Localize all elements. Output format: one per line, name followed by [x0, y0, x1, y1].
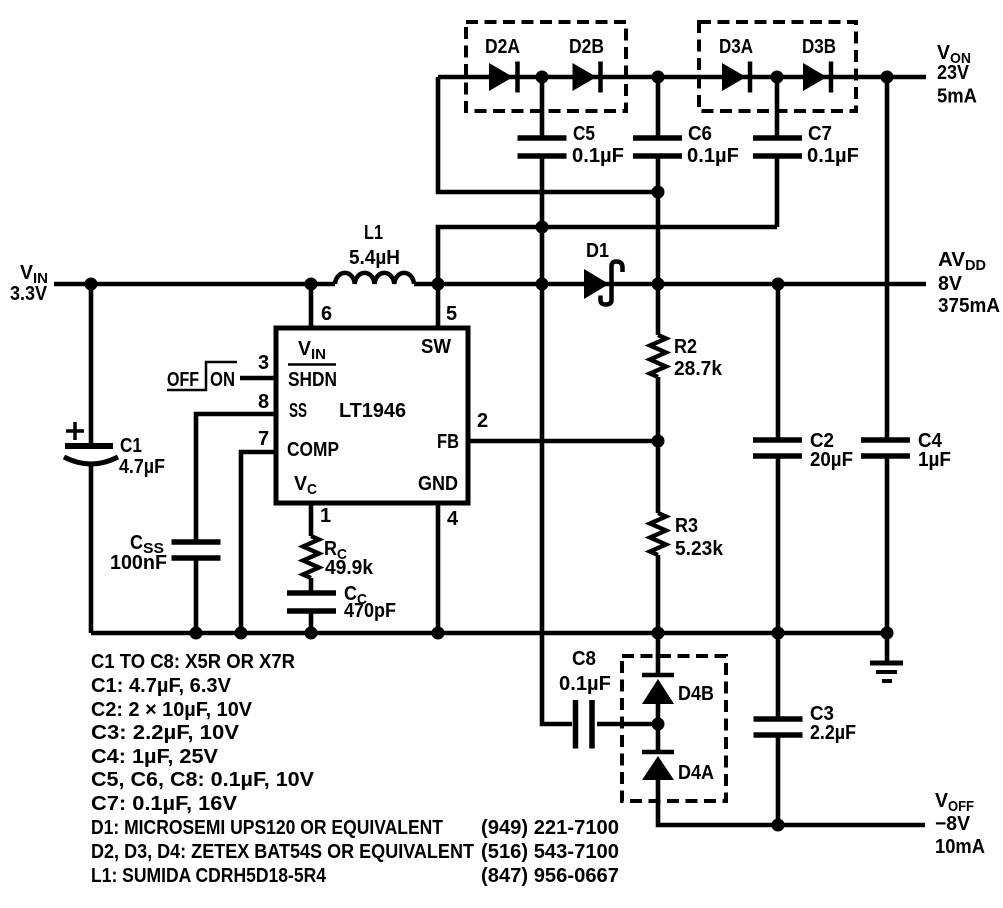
pin label VIN inside IC: [298, 338, 326, 363]
capacitor CC bottom stub: [309, 613, 314, 633]
wire SW node to flying caps C5/C7 (y=227): [438, 227, 777, 284]
resistor R2 bottom stub: [656, 377, 661, 441]
resistor R2 zigzag: [650, 335, 666, 377]
svg-text:8: 8: [258, 391, 269, 413]
node D3B cathode/VON: [881, 71, 894, 84]
svg-text:D4A: D4A: [678, 762, 714, 784]
net label VOFF: [935, 790, 974, 815]
capacitor C5: [518, 138, 567, 156]
node C5 bottom/SW wire: [536, 221, 549, 234]
svg-text:C5, C6, C8: 0.1µF, 10V: C5, C6, C8: 0.1µF, 10V: [91, 769, 315, 791]
wire VIN branch to C1 top: [89, 284, 94, 444]
label RC: [324, 538, 347, 563]
node ground-symbol: [881, 627, 894, 640]
capacitor CSS: [172, 542, 221, 558]
svg-text:C2: 2 × 10µF, 10V: C2: 2 × 10µF, 10V: [91, 699, 253, 721]
wire SS pin stub and CSS riser: [196, 414, 276, 540]
svg-text:V: V: [298, 338, 312, 360]
svg-text:IN: IN: [311, 346, 326, 363]
svg-text:6: 6: [321, 303, 332, 325]
svg-text:D1: MICROSEMI UPS120 OR EQUIVA: D1: MICROSEMI UPS120 OR EQUIVALENT: [91, 817, 443, 839]
plus sign for C1: [66, 422, 84, 440]
node pin6/L1 left: [305, 278, 318, 291]
wire bottom ground rail: [91, 631, 887, 636]
svg-text:C4: 1µF, 25V: C4: 1µF, 25V: [91, 746, 219, 768]
svg-text:V: V: [937, 42, 951, 64]
capacitor C5 bottom stub: [540, 158, 545, 227]
svg-text:FB: FB: [437, 431, 459, 453]
svg-text:C5: C5: [573, 123, 595, 145]
diode D2A: [489, 62, 518, 93]
svg-text:D2, D3, D4: ZETEX BAT54S OR EQ: D2, D3, D4: ZETEX BAT54S OR EQUIVALENT: [91, 841, 474, 863]
wire D4B anode to node: [656, 702, 661, 724]
svg-text:4: 4: [447, 508, 459, 530]
capacitor C6: [633, 138, 682, 156]
wire riser from D2A anode down to C6-node wire: [438, 77, 658, 192]
wire SHDN pin stub: [240, 376, 276, 381]
resistor RC zigzag: [303, 536, 319, 578]
diode D3A: [722, 62, 750, 93]
ground: [870, 661, 903, 666]
svg-text:C1 TO C8: X5R OR X7R: C1 TO C8: X5R OR X7R: [91, 651, 296, 673]
svg-text:L1: L1: [364, 222, 383, 244]
svg-text:C1: C1: [120, 435, 142, 457]
svg-text:2.2µF: 2.2µF: [810, 722, 856, 744]
node SW/L1 right: [432, 278, 445, 291]
svg-text:V: V: [935, 790, 949, 812]
node D2B-D3A/C6 top: [652, 71, 665, 84]
svg-text:(949) 221-7100: (949) 221-7100: [481, 817, 619, 839]
op-amp U1 LT1946 box: [276, 328, 468, 503]
capacitor C7: [753, 138, 802, 156]
capacitor C2: [753, 440, 802, 456]
net label VIN: [20, 262, 48, 287]
OFF/ON step lines: [167, 362, 237, 390]
svg-text:SW: SW: [421, 336, 451, 358]
svg-text:5.4µH: 5.4µH: [349, 247, 400, 269]
svg-text:100nF: 100nF: [110, 552, 167, 574]
svg-text:5mA: 5mA: [937, 86, 977, 108]
svg-text:20µF: 20µF: [810, 449, 853, 471]
svg-text:SHDN: SHDN: [288, 369, 337, 391]
wire main AVDD rail right of L1: [414, 282, 926, 287]
svg-text:10mA: 10mA: [935, 836, 985, 858]
svg-text:L1: SUMIDA CDRH5D18-5R4: L1: SUMIDA CDRH5D18-5R4: [91, 865, 327, 887]
wire C4 bottom to ground rail: [885, 458, 890, 633]
node C2-C3/ground: [772, 627, 785, 640]
diode package D3 dashed box: [699, 22, 856, 111]
svg-text:49.9k: 49.9k: [325, 557, 374, 579]
svg-text:D3A: D3A: [719, 36, 753, 58]
svg-text:R2: R2: [674, 336, 697, 358]
node CC/ground: [305, 627, 318, 640]
svg-text:375mA: 375mA: [938, 295, 1000, 317]
svg-text:5.23k: 5.23k: [675, 538, 724, 560]
pin label VC inside IC: [294, 473, 317, 498]
capacitor C7 top stub: [775, 77, 780, 136]
node CSS/ground: [190, 627, 203, 640]
svg-text:R3: R3: [675, 515, 698, 537]
wire pin6 riser: [309, 284, 314, 330]
svg-text:28.7k: 28.7k: [674, 358, 723, 380]
net label VON: [937, 42, 971, 67]
svg-text:7: 7: [258, 428, 269, 450]
label CSS: [130, 532, 164, 557]
node D1 anode: [536, 278, 549, 291]
capacitor CC: [287, 593, 336, 611]
wire pin5 SW riser: [436, 284, 441, 330]
wire top charge-pump rail: [438, 75, 926, 80]
svg-text:(516) 543-7100: (516) 543-7100: [481, 841, 619, 863]
svg-text:5: 5: [446, 303, 457, 325]
svg-text:0.1µF: 0.1µF: [559, 673, 611, 695]
diode D2B: [573, 62, 601, 93]
svg-text:SS: SS: [289, 400, 307, 422]
node GND pin/ground: [432, 627, 445, 640]
wire C2 bottom to ground rail: [776, 458, 781, 633]
svg-text:1µF: 1µF: [918, 449, 951, 471]
node C3/VOFF: [772, 819, 785, 832]
svg-text:4.7µF: 4.7µF: [119, 456, 165, 478]
label CC: [344, 583, 367, 608]
wire VC pin riser to RC: [309, 501, 314, 536]
node FB divider: [652, 435, 665, 448]
wire ground symbol stub: [885, 633, 890, 662]
svg-text:D1: D1: [586, 240, 609, 262]
node COMP/ground: [235, 627, 248, 640]
diode package D4 dashed box: [622, 656, 726, 801]
wire C3 bottom to VOFF rail: [776, 737, 781, 825]
diode package D2 dashed box: [466, 22, 626, 111]
node VIN/C1: [85, 278, 98, 291]
capacitor C7 bottom stub: [775, 158, 780, 227]
svg-text:(847) 956-0667: (847) 956-0667: [481, 865, 619, 887]
wire D4A anode to VOFF rail: [658, 778, 925, 825]
capacitor C8: [576, 700, 593, 749]
wire COMP pin stub and riser to ground: [241, 452, 276, 633]
svg-text:C: C: [307, 481, 317, 498]
svg-text:AV: AV: [938, 249, 966, 271]
svg-text:3.3V: 3.3V: [10, 283, 48, 305]
capacitor C3: [754, 719, 803, 735]
svg-text:D3B: D3B: [802, 36, 836, 58]
svg-text:470pF: 470pF: [344, 600, 396, 622]
capacitor CSS bottom stub: [194, 560, 199, 633]
svg-text:23V: 23V: [937, 62, 970, 84]
svg-text:−8V: −8V: [935, 813, 971, 835]
svg-text:C: C: [130, 532, 143, 554]
svg-text:C1: 4.7µF, 6.3V: C1: 4.7µF, 6.3V: [91, 675, 232, 697]
svg-text:OFF: OFF: [167, 369, 199, 391]
capacitor C6 top stub: [656, 77, 661, 136]
svg-text:V: V: [20, 262, 34, 284]
capacitor C4: [861, 440, 910, 456]
svg-text:1: 1: [320, 505, 331, 527]
SHDN overline: [288, 363, 336, 366]
svg-text:0.1µF: 0.1µF: [572, 145, 624, 167]
svg-text:0.1µF: 0.1µF: [687, 145, 739, 167]
inductor L1: [335, 273, 414, 284]
net label AVDD: [938, 249, 986, 274]
wire D4B cathode to ground rail: [656, 633, 661, 675]
resistor R3 top stub: [656, 441, 661, 513]
svg-text:3: 3: [258, 352, 269, 374]
svg-text:0.1µF: 0.1µF: [807, 145, 859, 167]
wire C3 riser from ground rail: [776, 633, 781, 717]
wire C2 riser from AVDD: [776, 284, 781, 438]
resistor R2 top stub: [656, 284, 661, 335]
node C6 bottom/D2A anode: [652, 186, 665, 199]
wire VON riser down to C4: [885, 77, 890, 438]
node D2A-D2B midpoint: [536, 71, 549, 84]
node D3A-D3B midpoint: [771, 71, 784, 84]
svg-text:2: 2: [477, 410, 488, 432]
node D1 cathode/AVDD: [652, 278, 665, 291]
wire node to D4A cathode: [656, 724, 661, 752]
resistor R3 zigzag: [650, 513, 666, 555]
capacitor C5 top stub: [540, 77, 545, 136]
svg-text:LT1946: LT1946: [339, 400, 406, 422]
resistor R3 bottom stub: [656, 555, 661, 633]
capacitor C1 polarized: [64, 446, 118, 464]
wire RC to CC: [309, 578, 314, 591]
svg-text:COMP: COMP: [287, 439, 339, 461]
svg-text:D2B: D2B: [569, 36, 604, 58]
svg-text:D4B: D4B: [678, 683, 714, 705]
svg-text:D2A: D2A: [485, 36, 520, 58]
svg-text:C7: 0.1µF, 16V: C7: 0.1µF, 16V: [91, 793, 238, 815]
diode D4B: [642, 675, 674, 704]
svg-text:C8: C8: [572, 648, 596, 670]
wire FB to divider: [468, 439, 658, 444]
diode D3B: [803, 62, 831, 93]
svg-text:GND: GND: [418, 473, 458, 495]
diode D1 schottky: [584, 262, 623, 305]
wire main AVDD rail left of L1: [54, 282, 335, 287]
node AVDD/C2: [772, 278, 785, 291]
svg-text:V: V: [294, 473, 308, 495]
svg-text:C6: C6: [688, 123, 712, 145]
diode D4A: [642, 752, 674, 780]
wire C8 right lead to D4 node: [597, 722, 658, 727]
wire C1 bottom to ground rail: [89, 462, 94, 633]
svg-text:ON: ON: [210, 369, 235, 391]
node D4B/ground: [652, 627, 665, 640]
wire D1-anode/C8 long vertical: [542, 227, 572, 724]
capacitor C6 bottom stub to AVDD: [656, 158, 661, 284]
wire GND pin riser: [436, 501, 441, 633]
svg-text:C7: C7: [808, 123, 832, 145]
svg-text:C3: 2.2µF, 10V: C3: 2.2µF, 10V: [91, 722, 240, 744]
svg-text:8V: 8V: [938, 273, 963, 295]
svg-text:DD: DD: [965, 257, 986, 274]
node C8/D4 midpoint: [652, 718, 665, 731]
